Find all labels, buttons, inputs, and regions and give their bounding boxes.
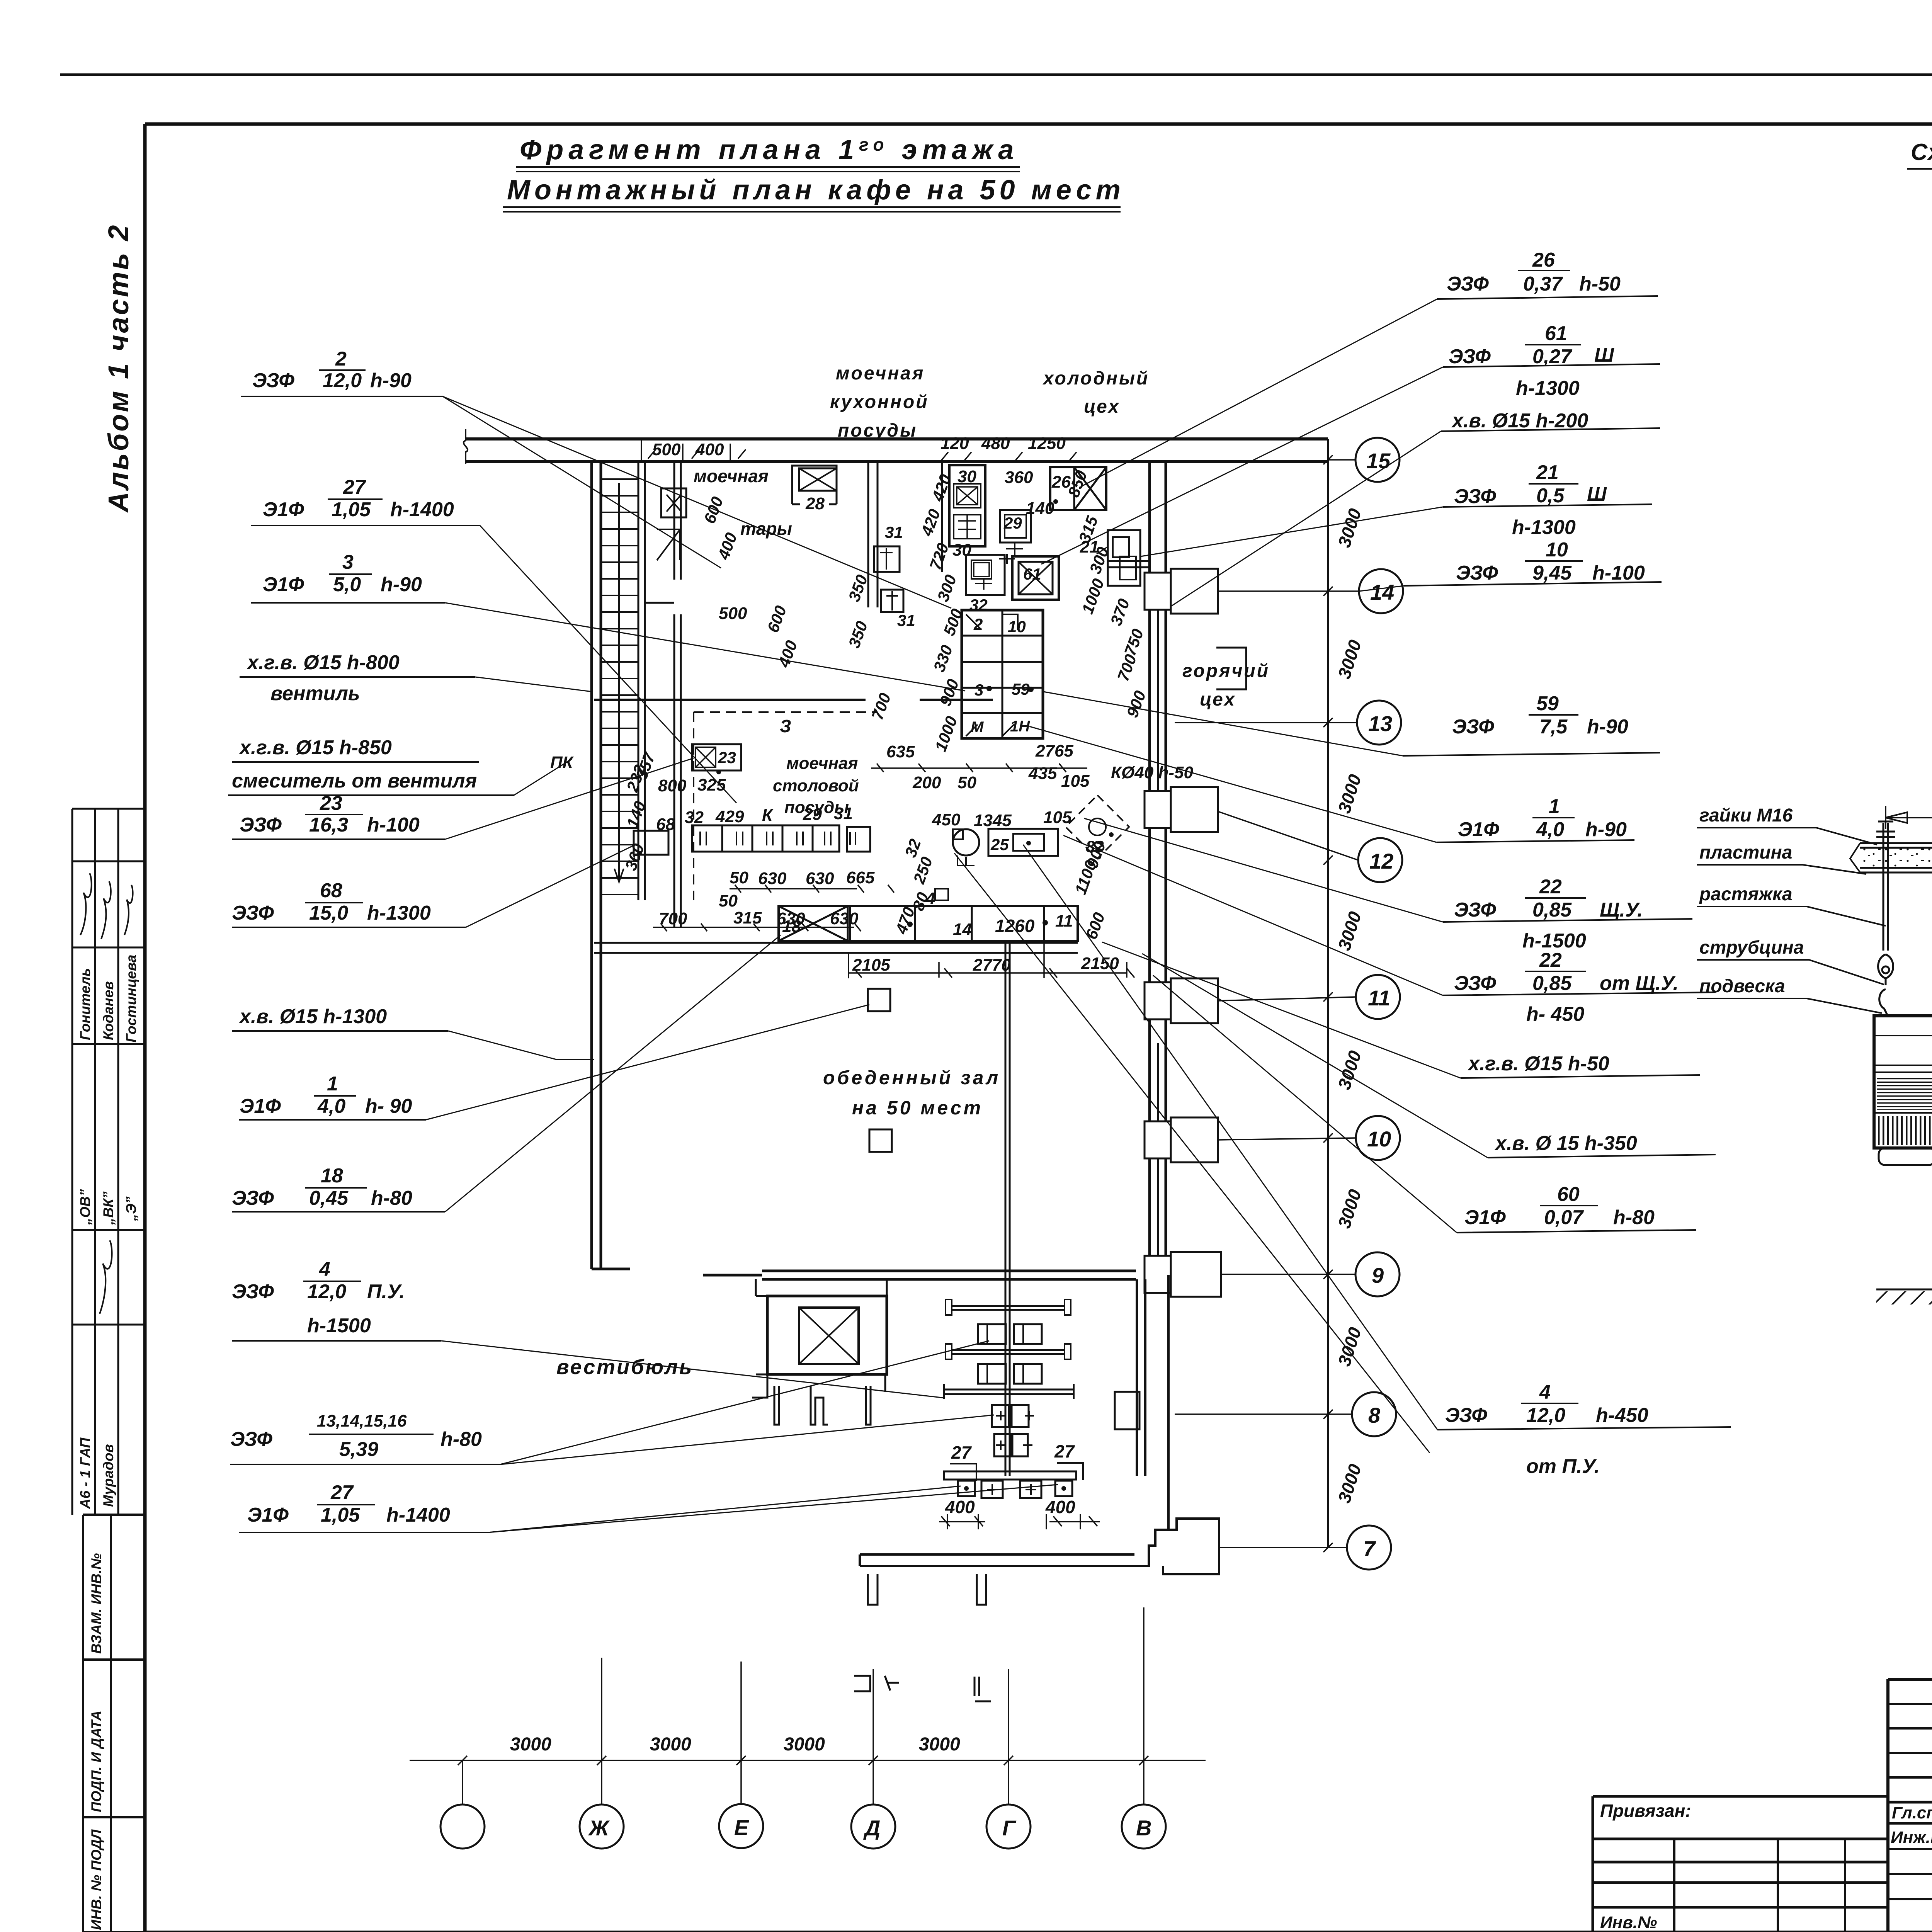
- svg-text:h-1400: h-1400: [386, 1504, 450, 1526]
- right wall of kitchen block: [1150, 461, 1166, 1275]
- feet: [1879, 1148, 1932, 1165]
- svg-text:тары: тары: [740, 519, 792, 539]
- svg-text:18: 18: [321, 1165, 343, 1187]
- svg-text:Э1Ф: Э1Ф: [247, 1504, 289, 1526]
- svg-text:Э1Ф: Э1Ф: [263, 498, 304, 521]
- sink row boxes: [692, 825, 870, 852]
- door sills: [854, 1676, 991, 1701]
- svg-text:Фрагмент плана 1го этажа: Фрагмент плана 1го этажа: [520, 134, 1019, 165]
- svg-text:Схема размещения вентотсосов: Схема размещения вентотсосов: [1911, 139, 1932, 165]
- wc fixture top-left: [661, 488, 686, 517]
- ground left: [1876, 1289, 1932, 1291]
- svg-text:h-1300: h-1300: [1512, 516, 1576, 539]
- svg-text:ЭЗФ: ЭЗФ: [230, 1428, 272, 1451]
- stair rails: [638, 461, 645, 900]
- svg-text:2: 2: [335, 348, 347, 370]
- svg-text:пластина: пластина: [1699, 842, 1792, 863]
- ceiling slab left: [1860, 843, 1932, 872]
- svg-text:моечная: моечная: [836, 363, 925, 384]
- svg-text:1345: 1345: [974, 811, 1012, 830]
- svg-text:27: 27: [330, 1481, 354, 1504]
- svg-text:М: М: [971, 719, 984, 736]
- leaders left column: [426, 396, 1058, 1532]
- svg-text:посуды: посуды: [838, 420, 917, 441]
- svg-text:7: 7: [1363, 1536, 1376, 1561]
- equipment 61 hood: [1012, 556, 1059, 600]
- plus boxes: [992, 1405, 1029, 1456]
- svg-text:ЭЗФ: ЭЗФ: [1447, 273, 1489, 295]
- dining bottom wall: [703, 1271, 1136, 1279]
- svg-text:Гл.спец.: Гл.спец.: [1892, 1803, 1932, 1822]
- svg-text:800: 800: [658, 776, 687, 795]
- svg-text:13: 13: [1368, 711, 1392, 736]
- svg-text:струбцина: струбцина: [1699, 937, 1804, 958]
- svg-text:h-80: h-80: [440, 1428, 482, 1451]
- svg-text:31: 31: [834, 804, 853, 823]
- svg-text:h-450: h-450: [1596, 1404, 1648, 1427]
- stair arrow: [614, 483, 624, 882]
- MO unit: [953, 829, 979, 855]
- svg-text:горячий: горячий: [1182, 661, 1270, 681]
- svg-text:1Н: 1Н: [1010, 718, 1030, 735]
- svg-text:630: 630: [830, 909, 859, 928]
- serving counter row: [779, 906, 1078, 941]
- svg-text:27: 27: [343, 476, 366, 498]
- svg-text:435: 435: [1028, 764, 1057, 783]
- svg-text:моечная: моечная: [694, 466, 769, 486]
- svg-text:h-90: h-90: [370, 369, 412, 392]
- svg-text:31: 31: [897, 611, 915, 629]
- svg-text:h-1500: h-1500: [307, 1315, 371, 1337]
- svg-text:59: 59: [1012, 680, 1030, 698]
- svg-text:12,0: 12,0: [1526, 1404, 1565, 1427]
- svg-text:3000: 3000: [510, 1734, 551, 1755]
- svg-text:гайки М16: гайки М16: [1699, 805, 1793, 826]
- partition right of stair: [645, 461, 681, 927]
- stepped bottom right: [1134, 1530, 1168, 1566]
- fraction bars + underlines left: [228, 370, 514, 1532]
- svg-text:„ВК”: „ВК”: [100, 1191, 116, 1225]
- porch posts: [774, 1386, 871, 1425]
- left wall: [592, 461, 630, 1269]
- svg-text:68: 68: [320, 879, 342, 902]
- box 25: [988, 829, 1058, 856]
- svg-text:обеденный зал: обеденный зал: [823, 1067, 1000, 1088]
- top wall band: [466, 439, 1328, 461]
- svg-text:10: 10: [1367, 1127, 1391, 1151]
- svg-text:61: 61: [1545, 322, 1567, 345]
- equipment 31 boxes: [874, 546, 900, 572]
- svg-text:ЭЗФ: ЭЗФ: [232, 1281, 274, 1303]
- svg-text:ЭЗФ: ЭЗФ: [232, 902, 274, 924]
- svg-text:7,5: 7,5: [1539, 716, 1568, 738]
- dashed partition: [694, 712, 877, 900]
- svg-text:„Э”: „Э”: [123, 1196, 139, 1221]
- svg-text:15,0: 15,0: [309, 902, 348, 924]
- svg-text:23: 23: [718, 748, 736, 767]
- left stamp column: [72, 809, 145, 1932]
- svg-text:61: 61: [1023, 565, 1041, 583]
- rotated plan dims: [621, 468, 1149, 942]
- svg-text:0,07: 0,07: [1544, 1206, 1584, 1229]
- svg-text:столовой: столовой: [773, 776, 859, 795]
- svg-text:635: 635: [886, 742, 915, 761]
- svg-text:h-100: h-100: [1592, 562, 1645, 584]
- svg-text:Э1Ф: Э1Ф: [240, 1095, 281, 1117]
- svg-text:х.г.в. Ø15 h-50: х.г.в. Ø15 h-50: [1467, 1053, 1609, 1075]
- svg-text:моечная: моечная: [786, 754, 858, 773]
- partition double: [868, 461, 878, 607]
- svg-text:29: 29: [803, 805, 822, 824]
- svg-text:П.У.: П.У.: [367, 1281, 405, 1303]
- svg-text:500: 500: [719, 604, 747, 623]
- svg-text:Мурадов: Мурадов: [100, 1444, 116, 1507]
- svg-text:h-1300: h-1300: [1516, 377, 1580, 400]
- svg-text:Коданев: Коданев: [100, 981, 116, 1040]
- svg-text:ПК: ПК: [550, 753, 574, 772]
- svg-text:ЭЗФ: ЭЗФ: [252, 369, 294, 392]
- svg-text:32: 32: [685, 808, 704, 827]
- svg-text:3: 3: [975, 681, 983, 699]
- svg-text:360: 360: [1005, 468, 1033, 487]
- svg-text:Э1Ф: Э1Ф: [263, 573, 304, 596]
- svg-text:Монтажный план кафе на 50 м: Монтажный план кафе на 50 мест: [507, 175, 1125, 206]
- svg-text:ЭЗФ: ЭЗФ: [1454, 972, 1496, 995]
- svg-text:подвеска: подвеска: [1699, 976, 1785, 997]
- svg-text:9: 9: [1372, 1263, 1384, 1287]
- svg-text:1,05: 1,05: [321, 1504, 360, 1526]
- svg-text:2: 2: [973, 615, 983, 633]
- svg-text:50: 50: [719, 891, 738, 910]
- equipment 21: [1108, 530, 1140, 586]
- svg-text:0,85: 0,85: [1532, 899, 1572, 921]
- vertical grid dim line: [1327, 439, 1329, 1548]
- svg-text:вентиль: вентиль: [270, 682, 360, 705]
- equipment 28 washer: [792, 466, 837, 504]
- svg-text:30: 30: [952, 541, 971, 560]
- svg-text:400: 400: [945, 1497, 975, 1517]
- svg-text:140: 140: [1026, 499, 1054, 518]
- svg-text:26: 26: [1532, 249, 1555, 271]
- sheet outer top line: [60, 73, 1932, 76]
- bottom wing wall: [860, 1554, 1134, 1566]
- svg-text:4,0: 4,0: [1536, 818, 1564, 841]
- svg-text:х.г.в. Ø15 h-850: х.г.в. Ø15 h-850: [238, 736, 392, 759]
- hot shop inner back wall: [1216, 648, 1246, 689]
- svg-text:смеситель от вентиля: смеситель от вентиля: [232, 770, 477, 792]
- svg-text:КØ40 h-50: КØ40 h-50: [1111, 763, 1193, 782]
- svg-text:28: 28: [805, 494, 825, 513]
- wc stall boxes: [978, 1324, 1042, 1384]
- svg-text:ЭЗФ: ЭЗФ: [1449, 345, 1491, 368]
- svg-text:ЭЗФ: ЭЗФ: [232, 1187, 274, 1209]
- elevator shaft: [767, 1296, 887, 1374]
- svg-text:4: 4: [319, 1258, 330, 1281]
- hanger rod left: [1883, 823, 1888, 951]
- bottom grid: [410, 1760, 1206, 1761]
- grid circles right side: [1347, 438, 1403, 1570]
- equipment 26 hood: [1050, 467, 1106, 510]
- stair treads: [601, 479, 638, 895]
- svg-text:0,45: 0,45: [309, 1187, 349, 1209]
- svg-text:25: 25: [990, 835, 1009, 854]
- privyazan annex: [1593, 1796, 1888, 1932]
- svg-text:11: 11: [1368, 986, 1390, 1010]
- svg-text:50: 50: [957, 773, 976, 792]
- svg-text:растяжка: растяжка: [1699, 884, 1793, 905]
- svg-text:ПОДП. И ДАТА: ПОДП. И ДАТА: [88, 1711, 104, 1812]
- svg-text:1250: 1250: [1028, 434, 1066, 453]
- svg-text:от Щ.У.: от Щ.У.: [1600, 972, 1679, 995]
- svg-text:21: 21: [1536, 461, 1559, 484]
- svg-text:В: В: [1136, 1816, 1151, 1840]
- svg-text:3000: 3000: [919, 1734, 960, 1755]
- svg-text:Инв.№: Инв.№: [1600, 1913, 1657, 1932]
- svg-text:27: 27: [951, 1442, 972, 1463]
- svg-text:от П.У.: от П.У.: [1526, 1455, 1600, 1478]
- 82 dashed hood: [1066, 795, 1129, 859]
- svg-text:1: 1: [1549, 795, 1560, 818]
- svg-text:ЭЗФ: ЭЗФ: [1454, 899, 1496, 921]
- svg-text:12: 12: [1369, 849, 1393, 873]
- svg-text:Гонитель: Гонитель: [77, 968, 93, 1040]
- svg-text:27: 27: [1054, 1441, 1075, 1461]
- svg-text:8: 8: [1368, 1403, 1381, 1427]
- 4 item: [935, 889, 948, 900]
- svg-text:630: 630: [758, 869, 787, 888]
- left labels: [1699, 805, 1804, 997]
- svg-text:Э1Ф: Э1Ф: [1464, 1206, 1506, 1229]
- svg-text:4: 4: [1539, 1381, 1551, 1403]
- wall pilasters on right wall: [1145, 569, 1221, 1297]
- svg-text:на 50 мест: на 50 мест: [852, 1097, 983, 1119]
- svg-text:ЭЗФ: ЭЗФ: [1445, 1404, 1487, 1427]
- cook block central: [962, 610, 1043, 738]
- svg-text:ЭЗФ: ЭЗФ: [1456, 562, 1498, 584]
- svg-text:429: 429: [715, 807, 744, 826]
- svg-text:цех: цех: [1084, 396, 1120, 417]
- svg-text:2770: 2770: [973, 956, 1011, 975]
- svg-text:Гостинцева: Гостинцева: [123, 955, 139, 1043]
- svg-text:х.в. Ø15 h-1300: х.в. Ø15 h-1300: [238, 1005, 387, 1028]
- svg-text:Привязан:: Привязан:: [1600, 1801, 1691, 1821]
- dining hall squares: [868, 989, 890, 1011]
- svg-text:h-90: h-90: [1587, 716, 1628, 738]
- svg-text:К: К: [762, 806, 774, 825]
- svg-text:0,85: 0,85: [1532, 972, 1572, 995]
- svg-text:4,0: 4,0: [317, 1095, 345, 1117]
- svg-text:1,05: 1,05: [332, 498, 371, 521]
- svg-text:ЭЗФ: ЭЗФ: [1452, 716, 1494, 738]
- equipment 32: [966, 555, 1005, 595]
- svg-text:200: 200: [912, 773, 941, 792]
- svg-text:ИНВ. № ПОДЛ: ИНВ. № ПОДЛ: [88, 1829, 104, 1930]
- svg-text:14: 14: [953, 920, 972, 939]
- wc center partition: [1005, 943, 1010, 1476]
- plan dimension ticks: [641, 438, 1134, 978]
- svg-text:315: 315: [733, 908, 762, 927]
- svg-text:Э1Ф: Э1Ф: [1458, 818, 1499, 841]
- box 68 left: [634, 831, 668, 855]
- svg-text:Ш: Ш: [1587, 483, 1607, 505]
- svg-text:х.в. Ø 15 h-350: х.в. Ø 15 h-350: [1494, 1132, 1637, 1155]
- shelf: [944, 1389, 1074, 1394]
- svg-text:3000: 3000: [650, 1734, 691, 1755]
- fraction bars + underlines right: [1403, 270, 1731, 1430]
- svg-text:30: 30: [957, 467, 976, 486]
- svg-text:29: 29: [1003, 514, 1022, 532]
- svg-text:0,37: 0,37: [1523, 273, 1563, 295]
- svg-text:h-100: h-100: [367, 814, 420, 836]
- vestibule right wall: [1137, 1279, 1145, 1476]
- svg-text:ЭЗФ: ЭЗФ: [1454, 485, 1496, 508]
- leaders from wall to circles: [1175, 460, 1359, 1548]
- svg-text:Ш: Ш: [1594, 344, 1614, 366]
- svg-text:0,5: 0,5: [1536, 485, 1565, 507]
- svg-text:9,45: 9,45: [1532, 562, 1572, 584]
- svg-text:12,0: 12,0: [307, 1281, 346, 1303]
- svg-text:120: 120: [940, 434, 969, 453]
- svg-text:Альбом 1 часть 2: Альбом 1 часть 2: [102, 223, 134, 513]
- svg-text:кухонной: кухонной: [830, 392, 929, 412]
- svg-text:Е: Е: [734, 1815, 749, 1840]
- svg-text:665: 665: [846, 868, 875, 887]
- plan dimension texts horizontal: [550, 434, 1193, 975]
- svg-text:Д: Д: [863, 1816, 880, 1840]
- cross rods: [952, 1306, 1065, 1310]
- svg-text:Инж.Iк.: Инж.Iк.: [1891, 1828, 1932, 1847]
- svg-text:Г: Г: [1002, 1816, 1017, 1840]
- svg-text:15: 15: [1366, 449, 1391, 473]
- svg-text:700: 700: [659, 909, 687, 928]
- svg-text:1: 1: [327, 1073, 338, 1095]
- svg-text:Щ.У.: Щ.У.: [1600, 899, 1643, 921]
- svg-text:22: 22: [1539, 876, 1562, 898]
- svg-text:105: 105: [1043, 808, 1072, 827]
- svg-text:h-80: h-80: [1613, 1206, 1655, 1229]
- svg-text:5,0: 5,0: [333, 573, 361, 596]
- sink room bottom wall: [594, 943, 1078, 953]
- svg-text:2105: 2105: [852, 956, 890, 975]
- svg-text:1260: 1260: [995, 916, 1035, 936]
- svg-text:60: 60: [1557, 1183, 1580, 1206]
- svg-text:630: 630: [806, 869, 834, 888]
- wall above dashed room: [594, 699, 993, 701]
- svg-text:h-80: h-80: [371, 1187, 412, 1209]
- svg-text:ЭЗФ: ЭЗФ: [240, 814, 282, 836]
- svg-text:2765: 2765: [1035, 742, 1073, 760]
- svg-text:14: 14: [1370, 580, 1394, 604]
- svg-text:3: 3: [342, 551, 354, 573]
- svg-text:500: 500: [652, 440, 681, 459]
- unit front view: [1874, 1016, 1932, 1148]
- svg-text:31: 31: [885, 523, 903, 541]
- svg-text:10: 10: [1546, 539, 1568, 561]
- svg-text:450: 450: [932, 810, 961, 829]
- svg-text:59: 59: [1536, 692, 1559, 715]
- svg-text:h-1400: h-1400: [390, 498, 454, 521]
- 3000 labels rotated: [1334, 506, 1365, 1505]
- svg-text:х.в. Ø15 h-200: х.в. Ø15 h-200: [1451, 410, 1588, 432]
- svg-text:16,3: 16,3: [309, 814, 348, 836]
- svg-text:ВЗАМ. ИНВ.№: ВЗАМ. ИНВ.№: [88, 1553, 104, 1654]
- svg-text:5,39: 5,39: [339, 1438, 378, 1461]
- wall break mark: [464, 429, 468, 464]
- svg-text:h-90: h-90: [1585, 818, 1627, 841]
- svg-text:630: 630: [777, 909, 805, 928]
- box 23: [692, 744, 741, 770]
- svg-text:холодный: холодный: [1042, 368, 1149, 389]
- svg-text:400: 400: [1045, 1497, 1075, 1517]
- svg-text:А6 - 1 ГАП: А6 - 1 ГАП: [77, 1437, 93, 1509]
- svg-text:3000: 3000: [784, 1734, 825, 1755]
- svg-text:З: З: [780, 716, 791, 736]
- bottom counter: [944, 1471, 1076, 1480]
- svg-text:h-50: h-50: [1579, 273, 1621, 295]
- svg-text:50: 50: [730, 868, 748, 887]
- svg-text:13,14,15,16: 13,14,15,16: [317, 1412, 407, 1430]
- svg-text:Ж: Ж: [588, 1816, 610, 1840]
- svg-text:0,27: 0,27: [1532, 345, 1572, 368]
- svg-text:цех: цех: [1200, 689, 1236, 710]
- svg-text:h- 450: h- 450: [1526, 1003, 1584, 1026]
- svg-text:h-1300: h-1300: [367, 902, 431, 924]
- leaders right column: [954, 299, 1488, 1453]
- svg-text:11: 11: [1055, 912, 1073, 930]
- svg-text:h- 90: h- 90: [365, 1095, 412, 1117]
- equipment 29: [1000, 510, 1031, 543]
- svg-text:10: 10: [1008, 617, 1026, 636]
- svg-text:„ОВ”: „ОВ”: [77, 1189, 93, 1225]
- equipment 30: [949, 465, 985, 546]
- svg-text:22: 22: [1539, 949, 1562, 971]
- svg-text:480: 480: [981, 434, 1010, 453]
- svg-text:12,0: 12,0: [323, 369, 362, 392]
- svg-text:68: 68: [656, 815, 675, 834]
- svg-text:h-90: h-90: [381, 573, 422, 596]
- svg-text:105: 105: [1061, 772, 1090, 791]
- svg-text:325: 325: [697, 776, 726, 794]
- room labels: [556, 363, 1270, 1379]
- svg-text:2150: 2150: [1081, 954, 1119, 973]
- stamp signatures: [80, 873, 133, 1314]
- svg-text:х.г.в. Ø15 h-800: х.г.в. Ø15 h-800: [246, 651, 400, 674]
